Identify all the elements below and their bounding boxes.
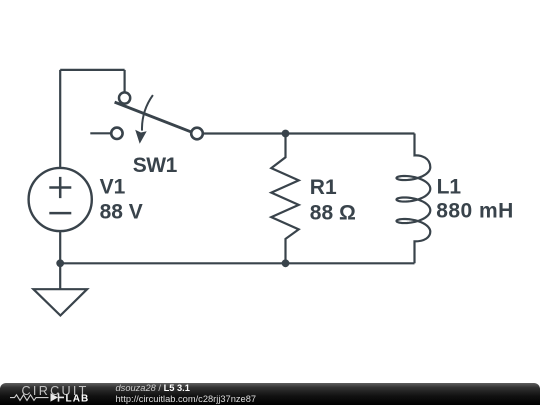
wire left rail V1 top lead	[59, 70, 61, 168]
switch top terminal circle	[119, 92, 130, 103]
resistor R1 zigzag	[271, 134, 298, 264]
junction dot bottom mid	[282, 259, 290, 267]
junction dot top	[282, 130, 290, 138]
logo diode bar	[59, 393, 65, 401]
V1 plus sign	[49, 177, 71, 198]
wire top-left horizontal from V1 rail to switch drop	[60, 69, 124, 71]
voltage source V1 circle	[29, 168, 92, 231]
ground triangle	[33, 289, 87, 315]
logo diode triangle	[51, 393, 59, 401]
svg-text:LAB: LAB	[66, 394, 90, 405]
switch left stub lead	[90, 132, 111, 134]
junction dot bottom left	[56, 259, 64, 267]
ground stem	[59, 263, 61, 289]
switch left terminal circle	[111, 128, 122, 139]
wire switch vertical drop	[123, 70, 125, 92]
switch arrow head	[135, 130, 147, 144]
footer bar	[0, 383, 540, 405]
switch right terminal circle	[191, 128, 203, 140]
logo zigzag resistor	[10, 395, 49, 401]
svg-text:http://circuitlab.com/c28rjj37: http://circuitlab.com/c28rjj37nze87	[116, 394, 257, 404]
wire switch output to junction to inductor corner	[202, 132, 414, 134]
svg-text:dsouza28 / L5 3.1: dsouza28 / L5 3.1	[116, 383, 190, 393]
switch action arc	[142, 95, 153, 131]
switch SW1 blade	[115, 102, 193, 132]
wire bottom rail	[60, 262, 414, 264]
inductor L1 coil	[397, 134, 431, 264]
wire V1 bottom lead	[59, 231, 61, 263]
V1 minus sign	[49, 212, 71, 215]
